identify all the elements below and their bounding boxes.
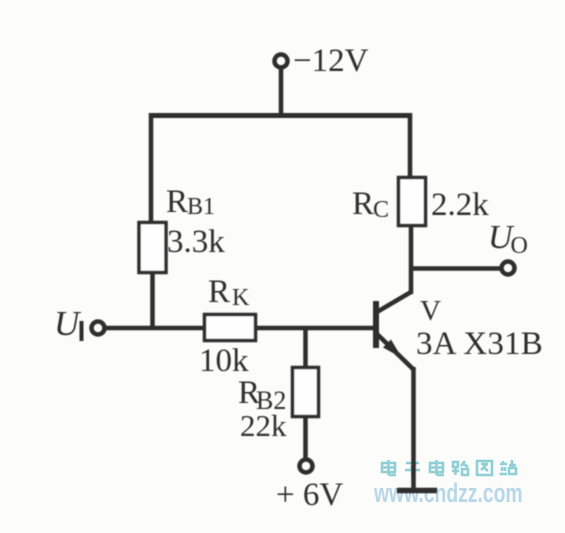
svg-text:3A X31B: 3A X31B: [416, 326, 543, 362]
terminal UI input: [92, 322, 105, 335]
terminal +6V: [300, 460, 313, 473]
svg-text:R: R: [166, 184, 188, 220]
svg-text:B1: B1: [187, 194, 215, 220]
transistor V base bar: [373, 301, 379, 348]
char 子: [405, 463, 420, 476]
resistor RK: [205, 315, 256, 341]
svg-text:−12V: −12V: [293, 43, 369, 79]
char 电: [382, 460, 396, 475]
wire RC to collector: [409, 225, 414, 294]
svg-text:R: R: [208, 274, 230, 310]
wire base node down to RB2: [303, 328, 308, 369]
watermark site name 电子电路图站: [382, 460, 516, 476]
terminal -12V: [275, 55, 288, 68]
resistor RB1: [139, 223, 166, 273]
svg-text:www.cndzz.com: www.cndzz.com: [373, 478, 522, 508]
char 路: [452, 461, 468, 475]
svg-text:22k: 22k: [240, 408, 287, 443]
svg-text:V: V: [420, 295, 441, 327]
transistor V collector lead: [377, 292, 411, 312]
resistor RC: [399, 178, 426, 226]
wire emitter down: [411, 367, 416, 490]
ground: [397, 488, 437, 494]
wire input rail: [104, 326, 376, 331]
wire RB2 to +6V terminal: [303, 416, 308, 460]
resistor RB2: [293, 368, 319, 417]
wire RB1 to input rail: [150, 272, 155, 330]
wire right rail down to RC: [408, 113, 413, 179]
transistor V emitter lead: [377, 334, 413, 369]
char 图: [477, 461, 492, 475]
wire left rail down to RB1: [149, 113, 154, 226]
svg-text:R: R: [352, 186, 374, 222]
wire top rail: [149, 113, 412, 118]
transistor V emitter arrow: [383, 340, 402, 359]
svg-text:10k: 10k: [199, 343, 249, 379]
wire output: [411, 266, 500, 271]
svg-text:C: C: [373, 197, 389, 223]
svg-text:+ 6V: + 6V: [276, 477, 343, 513]
svg-text:3.3k: 3.3k: [167, 224, 225, 260]
terminal UO output: [502, 262, 515, 275]
char 电: [430, 460, 444, 475]
svg-text:O: O: [511, 233, 528, 259]
svg-text:2.2k: 2.2k: [431, 187, 489, 223]
char 站: [500, 460, 517, 474]
svg-text:U: U: [54, 304, 82, 343]
wire -12V terminal to top rail: [279, 68, 284, 117]
svg-text:K: K: [232, 285, 250, 311]
